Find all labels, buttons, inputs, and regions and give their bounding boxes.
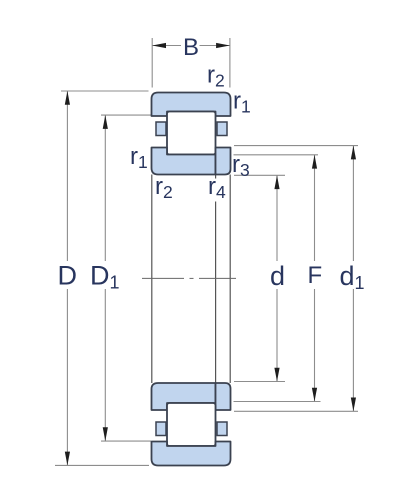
dimension D1 vertical line with arrows	[103, 115, 108, 441]
cage bar right (bottom section)	[217, 422, 227, 436]
svg-text:D1: D1	[90, 261, 120, 293]
dimension F vertical line with arrows	[312, 155, 317, 402]
dimension D1 extension line bottom	[101, 440, 151, 442]
dimension B extension line left	[151, 38, 153, 88]
loose flange (top section)	[216, 148, 231, 175]
dimension B line left segment with arrow	[152, 43, 181, 48]
dimension F extension line top	[234, 154, 319, 156]
dimension D extension line top	[61, 90, 149, 92]
roller (bottom section)	[167, 403, 216, 446]
roller (top section)	[167, 112, 216, 155]
svg-text:r2: r2	[207, 62, 225, 91]
projection line left face	[151, 175, 153, 384]
dimension F extension line bottom	[234, 401, 321, 403]
projection line loose-flange face	[215, 175, 217, 384]
svg-text:D: D	[58, 261, 78, 291]
projection line right face	[229, 175, 231, 384]
svg-text:r2: r2	[155, 173, 173, 202]
cage bar left (bottom section)	[156, 422, 166, 436]
centerline	[142, 277, 236, 279]
inner ring with flange (bottom section)	[152, 383, 216, 410]
dimension D vertical line with arrows	[65, 91, 70, 465]
outer ring (bottom section)	[152, 442, 231, 466]
loose flange (bottom section)	[216, 383, 231, 410]
dimension D extension line bottom	[55, 464, 149, 466]
svg-text:d: d	[270, 261, 285, 291]
svg-text:F: F	[308, 262, 323, 289]
dimension d1 extension line top	[234, 145, 358, 147]
svg-text:d1: d1	[340, 261, 365, 293]
svg-text:r1: r1	[233, 88, 251, 117]
dimension D1 extension line top	[101, 114, 151, 116]
dimension d1 extension line bottom	[234, 410, 358, 412]
inner ring with flange (top section)	[152, 148, 216, 175]
outer ring (top section)	[152, 93, 231, 117]
dimension B line right segment with arrow	[200, 43, 230, 48]
dimension B extension line right	[229, 38, 231, 88]
svg-text:r1: r1	[130, 143, 148, 172]
dimension d extension line bottom	[234, 381, 285, 383]
dimension d extension line top	[234, 174, 285, 176]
dimension d vertical line with arrows	[274, 175, 279, 381]
dimension d1 vertical line with arrows	[351, 146, 356, 412]
svg-text:r4: r4	[208, 173, 226, 202]
cage bar right (top section)	[217, 122, 227, 136]
cage bar left (top section)	[156, 122, 166, 136]
svg-text:B: B	[183, 34, 199, 61]
